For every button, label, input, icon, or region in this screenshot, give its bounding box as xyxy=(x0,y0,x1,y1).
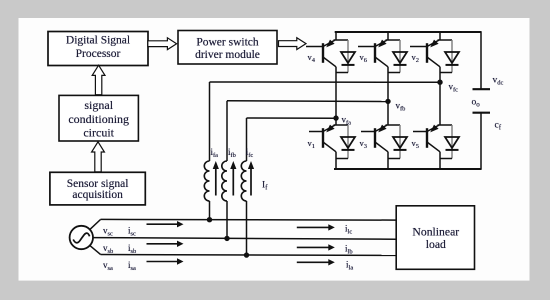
node junction phase c / filter xyxy=(207,217,212,222)
block U5 Nonlinear load xyxy=(396,206,474,269)
wire source to phase a line xyxy=(90,246,100,255)
diode D3 xyxy=(393,125,407,159)
wire V3 emitter loop xyxy=(388,158,400,160)
arrow ila xyxy=(297,259,335,265)
wire V5 collector node xyxy=(438,124,453,126)
arrow ifc xyxy=(248,161,254,196)
wire V3 emitter to rail xyxy=(387,152,389,169)
wire V5 emitter to rail xyxy=(439,152,441,169)
svg-text:load: load xyxy=(426,238,446,251)
wire V1 emitter to rail xyxy=(335,152,337,169)
wire V5 emitter loop xyxy=(440,158,452,160)
transistor V5 xyxy=(412,125,441,152)
svg-text:Nonlinear: Nonlinear xyxy=(412,226,459,239)
inductor Lfa xyxy=(246,118,248,161)
wire DC rail right drop xyxy=(480,31,482,89)
wire V6 emitter loop xyxy=(388,72,400,74)
wire vfc tap xyxy=(210,81,441,83)
wire vfa tap xyxy=(247,117,337,119)
wire V6 collector node xyxy=(386,39,401,41)
block U2 Power switch driver module xyxy=(178,31,277,65)
svg-text:signal: signal xyxy=(84,98,113,112)
wire phase b leg xyxy=(387,67,389,125)
transistor V3 xyxy=(360,125,389,152)
wire V4 emitter loop xyxy=(336,72,348,74)
node vfb xyxy=(385,99,405,113)
block U4 Sensor signal acquisition xyxy=(50,172,145,205)
svg-text:Sensor signal: Sensor signal xyxy=(67,178,129,190)
svg-text:Processor: Processor xyxy=(76,48,121,60)
diode D4 xyxy=(341,40,355,73)
wire V2 collector node xyxy=(438,39,453,41)
transistor V1 xyxy=(308,125,337,152)
wire V4 collector node xyxy=(334,39,349,41)
capacitor Cf xyxy=(473,89,502,170)
ac source G xyxy=(70,226,93,249)
svg-text:Digital Signal: Digital Signal xyxy=(66,35,130,47)
wire V1 collector node xyxy=(334,124,349,126)
arrow ifb xyxy=(230,161,236,196)
wire source to phase c line xyxy=(90,220,100,230)
node junction phase a / filter xyxy=(244,252,249,257)
wire negative DC rail xyxy=(334,168,481,170)
diode D2 xyxy=(445,40,459,73)
node vfa xyxy=(333,115,351,127)
svg-text:circuit: circuit xyxy=(83,126,114,140)
inductor Lfc xyxy=(209,82,211,161)
arrow U4 to U3 xyxy=(92,142,105,172)
transistor V2 xyxy=(410,40,440,67)
diode D6 xyxy=(393,40,407,73)
wire phase c leg xyxy=(439,67,441,125)
arrow U2 to bridge xyxy=(279,38,307,50)
wire phase a line xyxy=(101,254,397,257)
wire V2 collector to rail xyxy=(439,32,441,40)
wire positive DC rail xyxy=(335,31,481,33)
arrow ifa xyxy=(213,161,219,196)
wire V4 collector to rail xyxy=(335,32,337,40)
wire V3 collector node xyxy=(386,124,401,126)
arrow isa xyxy=(147,258,184,264)
transistor V4 xyxy=(306,40,336,67)
diode D1 xyxy=(341,125,355,159)
wire V2 emitter loop xyxy=(440,72,452,74)
block U3 signal conditioning circuit xyxy=(59,95,138,141)
wire phase b line xyxy=(93,238,396,240)
arrow ilb xyxy=(297,244,335,250)
diode D5 xyxy=(445,125,459,159)
block U1 Digital Signal Processor xyxy=(48,32,148,66)
wire phase c line xyxy=(101,218,397,221)
node junction phase b / filter xyxy=(224,236,229,241)
wire V1 emitter loop xyxy=(336,158,348,160)
wire vfb tap xyxy=(227,100,388,103)
inductor Lfb xyxy=(226,101,228,161)
node vfc xyxy=(437,80,458,94)
arrow isb xyxy=(147,241,184,247)
svg-text:acquisition: acquisition xyxy=(72,189,123,201)
arrow U1 to U2 xyxy=(148,38,177,50)
transistor V6 xyxy=(358,40,388,67)
arrow ilc xyxy=(297,224,335,230)
wire V6 collector to rail xyxy=(387,32,389,40)
svg-text:conditioning: conditioning xyxy=(68,112,129,126)
svg-text:Power switch: Power switch xyxy=(196,36,259,48)
arrow isc xyxy=(147,221,184,227)
arrow U3 to U1 xyxy=(92,65,105,95)
svg-text:driver module: driver module xyxy=(195,49,260,61)
wire phase a leg xyxy=(335,67,337,125)
